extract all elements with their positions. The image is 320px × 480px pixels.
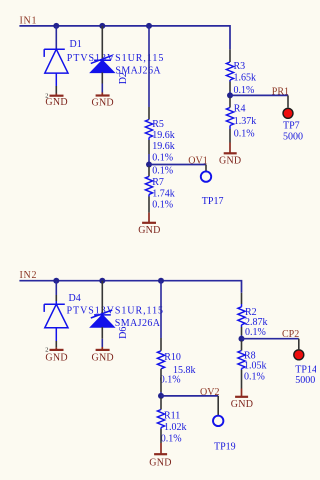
junction OV1 (146, 162, 152, 168)
svg-text:PR1: PR1 (272, 86, 289, 97)
svg-text:0.1%: 0.1% (160, 375, 181, 386)
pin D4 pin2 (55, 341, 57, 348)
resistor R3 (1.65k) (226, 62, 233, 80)
ground GND (D5) (101, 347, 103, 350)
svg-text:OV2: OV2 (200, 387, 219, 398)
svg-text:0.1%: 0.1% (152, 166, 173, 177)
svg-text:D4: D4 (69, 293, 81, 304)
resistor R8 (1.05k) (238, 351, 245, 369)
svg-text:0.1%: 0.1% (152, 152, 173, 163)
svg-text:D1: D1 (70, 39, 82, 50)
pin R11 bottom (160, 428, 162, 430)
svg-text:0.1%: 0.1% (245, 327, 266, 338)
resistor R5 (19.6k) (145, 120, 152, 138)
svg-text:GND: GND (231, 399, 253, 410)
svg-text:TP17: TP17 (202, 196, 224, 207)
wire OV2 (161, 395, 218, 397)
pin R10 bottom (160, 369, 162, 392)
junction at R5 (146, 23, 152, 29)
pin R8 bottom (241, 369, 243, 371)
svg-text:0.1%: 0.1% (152, 200, 173, 211)
pin R5 bottom (148, 138, 150, 141)
svg-text:CP2: CP2 (282, 329, 299, 340)
svg-text:GND: GND (219, 156, 241, 167)
svg-text:GND: GND (91, 97, 113, 108)
svg-text:IN2: IN2 (20, 270, 38, 281)
pin TP7 (287, 95, 289, 107)
ground GND (R8) (241, 389, 243, 397)
wire D1 bottom (55, 73, 57, 86)
resistor R2 (2.87k) (238, 307, 245, 325)
wire IN2 horizontal bus (19, 281, 241, 293)
wire to OV1 node (148, 154, 150, 165)
svg-text:R7: R7 (152, 177, 164, 188)
svg-text:1.05k: 1.05k (244, 361, 267, 372)
svg-text:R4: R4 (234, 103, 246, 114)
pin R5 top (148, 107, 150, 120)
svg-text:GND: GND (45, 97, 67, 108)
svg-text:0.1%: 0.1% (244, 372, 265, 383)
pin D5 bottom (101, 327, 103, 339)
svg-text:TP14: TP14 (295, 365, 316, 376)
svg-text:GND: GND (45, 352, 67, 363)
testpoint TP14 (294, 350, 304, 360)
junction at D4 (53, 278, 59, 284)
wire PR1 (230, 94, 288, 96)
wire R10 top (160, 281, 162, 338)
svg-text:GND: GND (138, 225, 160, 236)
pin D2 top (101, 26, 103, 60)
svg-text:R11: R11 (164, 411, 180, 422)
svg-text:PTVS13VS1UR,115: PTVS13VS1UR,115 (67, 305, 165, 316)
junction CP2 (239, 336, 245, 342)
ground GND (D1) (55, 94, 57, 96)
pin R7 bottom (148, 194, 150, 196)
svg-text:1.37k: 1.37k (234, 116, 256, 127)
wire D1 top (55, 26, 57, 49)
pin R3 top (229, 49, 231, 62)
pin D1 pin2 (55, 86, 57, 94)
svg-text:0.1%: 0.1% (234, 128, 255, 139)
wire IN1 horizontal bus (19, 26, 230, 50)
resistor R4 (1.37k) (226, 108, 233, 126)
wire CP2 (242, 338, 299, 340)
wire R5 top (148, 26, 150, 107)
diode D4 (TVS PTVS13VS1UR,115) (44, 304, 68, 328)
junction at D1 (53, 23, 59, 29)
pin TP17 (205, 165, 207, 172)
wire D2 to gnd (101, 84, 103, 93)
resistor R10 (15.8k) (157, 351, 164, 369)
pin R2 bottom (241, 325, 243, 327)
pin R7 top (148, 166, 150, 176)
svg-text:D2: D2 (118, 72, 129, 84)
pin R4 top (229, 98, 231, 108)
svg-text:5000: 5000 (295, 375, 315, 386)
diode D1 (TVS PTVS13VS1UR,115) (44, 49, 68, 73)
ground GND (R4) (229, 143, 231, 154)
svg-text:TP19: TP19 (214, 441, 236, 452)
ground GND (D4) (55, 348, 57, 350)
wire D5 to gnd (101, 339, 103, 347)
svg-text:19.6k: 19.6k (152, 141, 175, 152)
wire D4 bottom (55, 328, 57, 341)
testpoint TP19 (213, 416, 223, 426)
resistor R11 (1.02k) (157, 410, 164, 428)
ground GND (R7) (148, 213, 150, 223)
svg-text:1.65k: 1.65k (234, 73, 257, 84)
junction OV2 (158, 393, 164, 399)
testpoint TP7 (283, 108, 293, 118)
svg-text:GND: GND (149, 457, 171, 468)
diode D2 (SMAJ26A) (91, 55, 114, 72)
testpoint TP17 (201, 171, 211, 181)
svg-text:19.6k: 19.6k (152, 130, 175, 141)
pin R2 top (241, 293, 243, 304)
wire OV1 (149, 164, 206, 166)
pin R10 top (160, 338, 162, 351)
wire D4 top (55, 281, 57, 295)
pin D5 top (101, 281, 103, 315)
svg-text:R5: R5 (152, 119, 164, 130)
pin TP14 (298, 339, 300, 350)
pin R3 bottom (229, 80, 231, 82)
junction at R10 (158, 278, 164, 284)
svg-text:0.1%: 0.1% (234, 85, 255, 96)
junction at D5 (99, 278, 105, 284)
diode D5 (SMAJ26A) (91, 310, 114, 327)
svg-text:5000: 5000 (283, 132, 303, 143)
pin R11 top (160, 398, 162, 410)
svg-text:IN1: IN1 (20, 15, 38, 26)
pin R8 top (241, 341, 243, 351)
resistor R7 (1.74k) (145, 176, 152, 194)
svg-text:TP7: TP7 (283, 120, 300, 131)
svg-text:R10: R10 (164, 352, 181, 363)
pin R4 bottom (229, 126, 231, 130)
svg-text:0.1%: 0.1% (161, 433, 182, 444)
svg-text:D6: D6 (118, 327, 129, 339)
junction PR1 (227, 92, 233, 98)
svg-text:1.02k: 1.02k (164, 422, 187, 433)
svg-text:1.74k: 1.74k (152, 188, 175, 199)
svg-text:OV1: OV1 (188, 156, 207, 167)
ground GND (R11) (160, 443, 162, 454)
ground GND (D2) (101, 93, 103, 96)
svg-text:GND: GND (91, 352, 113, 363)
junction at D2 (99, 23, 105, 29)
svg-text:R3: R3 (234, 61, 246, 72)
pin D2 bottom (101, 72, 103, 83)
pin TP19 (217, 396, 219, 416)
